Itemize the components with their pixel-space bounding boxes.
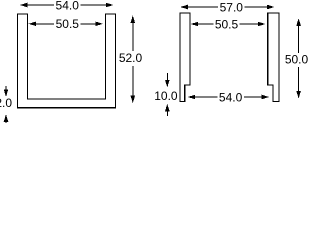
arrowhead top of 50.0 (right fig) xyxy=(296,18,301,26)
svg-text:57.0: 57.0 xyxy=(220,1,244,15)
svg-text:50.5: 50.5 xyxy=(56,17,80,31)
dimension line 50.0 right figure (vertical) xyxy=(298,26,300,92)
svg-text:2.0: 2.0 xyxy=(0,96,12,110)
dimension line 50.5 left figure xyxy=(36,23,96,25)
arrowhead upper of 2.0 (left fig, points down) xyxy=(4,89,9,97)
arrowhead left of 57.0 (right fig) xyxy=(180,5,188,10)
dimension line 10.0 right figure (arrow tails) xyxy=(166,73,168,116)
arrowhead right of 54.0 (left fig) xyxy=(106,3,114,8)
arrowhead bottom of 50.0 (right fig) xyxy=(296,91,301,99)
arrowhead lower of 2.0 (left fig, points up) xyxy=(4,114,9,122)
dimension line 2.0 left figure (arrow tails) xyxy=(5,86,7,123)
arrowhead top of 52.0 (left fig) xyxy=(131,15,136,23)
svg-text:52.0: 52.0 xyxy=(119,51,143,65)
arrowhead right of 57.0 (right fig) xyxy=(267,5,275,10)
arrowhead left of 50.5 (right fig) xyxy=(191,22,199,27)
dimension line 50.5 right figure xyxy=(198,23,258,25)
svg-text:54.0: 54.0 xyxy=(219,90,243,104)
arrowhead upper of 10.0 (right fig, points down) xyxy=(165,80,170,88)
dimension line 54.0 bottom right figure xyxy=(195,96,262,98)
arrowhead right of 50.5 (left fig) xyxy=(95,22,103,27)
arrowhead left of 54.0 (left fig) xyxy=(20,3,28,8)
arrowhead left of 54.0 bottom (right fig) xyxy=(188,95,196,100)
svg-text:50.5: 50.5 xyxy=(215,18,239,32)
dimension line 54.0 top left figure xyxy=(27,4,106,6)
right wall of right figure (stepped) xyxy=(268,13,279,101)
dimension line 52.0 left figure (vertical) xyxy=(132,23,134,96)
U-channel profile outline (left figure) xyxy=(18,14,116,108)
left wall of right figure (stepped) xyxy=(180,13,190,101)
dimension line 57.0 right figure xyxy=(188,6,268,8)
arrowhead left of 50.5 (left fig) xyxy=(29,22,36,27)
svg-text:50.0: 50.0 xyxy=(285,53,309,67)
arrowhead right of 54.0 bottom (right fig) xyxy=(262,95,270,100)
arrowhead lower of 10.0 (right fig, points up) xyxy=(165,104,170,112)
arrowhead bottom of 52.0 (left fig) xyxy=(131,96,136,104)
svg-text:10.0: 10.0 xyxy=(154,89,178,103)
arrowhead right of 50.5 (right fig) xyxy=(258,22,266,27)
svg-text:54.0: 54.0 xyxy=(56,0,80,12)
